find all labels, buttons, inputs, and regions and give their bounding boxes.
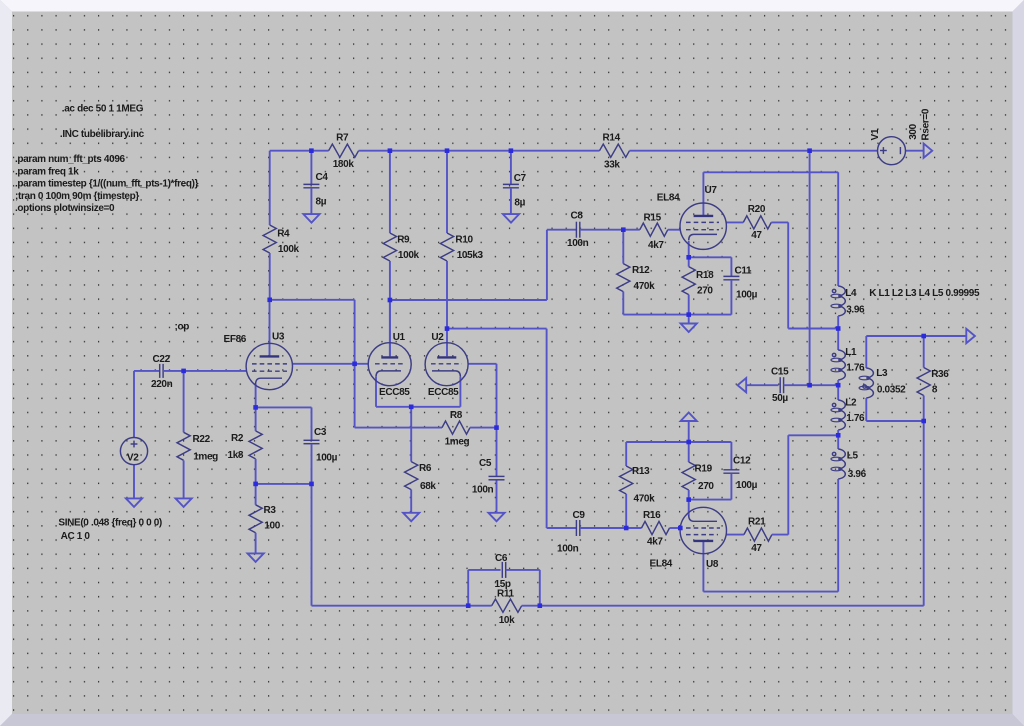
- svg-text:R14: R14: [603, 133, 621, 144]
- svg-text:C3: C3: [314, 427, 327, 438]
- svg-text:4k7: 4k7: [648, 240, 664, 251]
- svg-text:100µ: 100µ: [316, 453, 338, 464]
- svg-text:L4: L4: [845, 288, 857, 299]
- svg-text:R13: R13: [632, 466, 650, 477]
- svg-text:AC 1 0: AC 1 0: [61, 531, 91, 542]
- svg-text:EL84: EL84: [650, 559, 673, 570]
- svg-text:105k3: 105k3: [457, 250, 484, 261]
- svg-text:100µ: 100µ: [736, 480, 758, 491]
- svg-text:100n: 100n: [567, 238, 589, 249]
- svg-text:K L1 L2 L3 L4 L5 0.99995: K L1 L2 L3 L4 L5 0.99995: [869, 288, 980, 299]
- svg-text:270: 270: [698, 481, 714, 492]
- svg-text:68k: 68k: [420, 481, 436, 492]
- svg-text:R15: R15: [644, 213, 662, 224]
- svg-text:8: 8: [932, 385, 938, 396]
- svg-text:L5: L5: [847, 451, 859, 462]
- svg-text:R6: R6: [419, 463, 432, 474]
- svg-text:180k: 180k: [333, 159, 355, 170]
- svg-text:.param timestep {1/((num_fft_p: .param timestep {1/((num_fft_pts-1)*freq…: [15, 179, 199, 190]
- svg-text:1meg: 1meg: [445, 436, 470, 447]
- svg-text:V1: V1: [870, 128, 881, 140]
- svg-text:100k: 100k: [278, 244, 300, 255]
- svg-text:C11: C11: [735, 266, 753, 277]
- svg-text:R21: R21: [748, 517, 766, 528]
- svg-text:C7: C7: [514, 173, 527, 184]
- svg-text:L1: L1: [845, 347, 857, 358]
- svg-text:R2: R2: [231, 433, 244, 444]
- svg-text:C22: C22: [153, 354, 171, 365]
- svg-text:100n: 100n: [557, 544, 579, 555]
- svg-text:C8: C8: [571, 210, 584, 221]
- svg-text:R7: R7: [336, 133, 349, 144]
- svg-text:L2: L2: [845, 398, 857, 409]
- svg-text:8µ: 8µ: [316, 197, 327, 208]
- svg-text:R18: R18: [696, 270, 714, 281]
- svg-text:EL84: EL84: [657, 193, 680, 204]
- svg-text:R19: R19: [695, 464, 713, 475]
- svg-text:100: 100: [264, 521, 280, 532]
- svg-text:4k7: 4k7: [647, 537, 663, 548]
- svg-text:470k: 470k: [634, 281, 656, 292]
- svg-text:R4: R4: [277, 228, 290, 239]
- svg-text:47: 47: [751, 543, 762, 554]
- svg-text:C6: C6: [495, 553, 508, 564]
- svg-text:220n: 220n: [151, 379, 173, 390]
- svg-text:C9: C9: [573, 510, 586, 521]
- svg-text:R12: R12: [632, 265, 650, 276]
- svg-text:.options plotwinsize=0: .options plotwinsize=0: [15, 203, 115, 214]
- svg-text:U3: U3: [272, 332, 285, 343]
- svg-text:C15: C15: [771, 367, 789, 378]
- svg-text:U2: U2: [431, 332, 444, 343]
- svg-text:47: 47: [751, 230, 762, 241]
- svg-text:1k8: 1k8: [228, 450, 244, 461]
- svg-text:;tran 0 100m 90m {timestep}: ;tran 0 100m 90m {timestep}: [15, 191, 139, 202]
- svg-text:470k: 470k: [634, 494, 656, 505]
- svg-text:3.96: 3.96: [846, 305, 865, 316]
- svg-text:1.76: 1.76: [846, 413, 865, 424]
- svg-text:R16: R16: [643, 510, 661, 521]
- svg-text:10k: 10k: [499, 615, 515, 626]
- svg-text:V2: V2: [127, 453, 139, 464]
- svg-text:U7: U7: [705, 185, 718, 196]
- svg-text:.param freq 1k: .param freq 1k: [15, 166, 79, 177]
- svg-text:0.0352: 0.0352: [877, 385, 906, 396]
- svg-text:ECC85: ECC85: [379, 387, 410, 398]
- svg-text:.INC tubelibrary.inc: .INC tubelibrary.inc: [60, 129, 145, 140]
- svg-text:1.76: 1.76: [846, 363, 865, 374]
- svg-text:270: 270: [697, 286, 713, 297]
- svg-text:C4: C4: [316, 172, 329, 183]
- svg-text:L3: L3: [876, 368, 888, 379]
- svg-text:R20: R20: [748, 204, 766, 215]
- svg-text:R3: R3: [264, 505, 277, 516]
- svg-text:.ac dec 50 1 1MEG: .ac dec 50 1 1MEG: [62, 104, 144, 115]
- svg-text:100µ: 100µ: [736, 290, 758, 301]
- svg-text:R9: R9: [397, 235, 410, 246]
- svg-text:100n: 100n: [472, 484, 494, 495]
- svg-text:ECC85: ECC85: [428, 387, 459, 398]
- svg-text:33k: 33k: [604, 160, 620, 171]
- svg-text:U1: U1: [393, 332, 406, 343]
- svg-text:3.96: 3.96: [848, 469, 867, 480]
- svg-text:R8: R8: [450, 410, 463, 421]
- svg-text:EF86: EF86: [224, 334, 247, 345]
- svg-text:R11: R11: [497, 589, 515, 600]
- svg-text:C5: C5: [479, 458, 492, 469]
- svg-text:8µ: 8µ: [514, 198, 525, 209]
- svg-text:.param num_fft_pts 4096: .param num_fft_pts 4096: [15, 154, 126, 165]
- svg-text:Rser=0: Rser=0: [921, 108, 932, 140]
- svg-text:R36: R36: [931, 369, 949, 380]
- svg-text:50µ: 50µ: [772, 393, 788, 404]
- svg-text:R22: R22: [193, 434, 211, 445]
- svg-text:SINE(0 .048 {freq} 0 0 0): SINE(0 .048 {freq} 0 0 0): [58, 517, 162, 528]
- svg-text:300: 300: [908, 123, 919, 139]
- svg-text:100k: 100k: [398, 250, 420, 261]
- svg-text:U8: U8: [706, 559, 719, 570]
- svg-text:1meg: 1meg: [193, 451, 218, 462]
- svg-text:C12: C12: [733, 456, 751, 467]
- svg-text:;op: ;op: [175, 322, 190, 333]
- svg-text:R10: R10: [455, 235, 473, 246]
